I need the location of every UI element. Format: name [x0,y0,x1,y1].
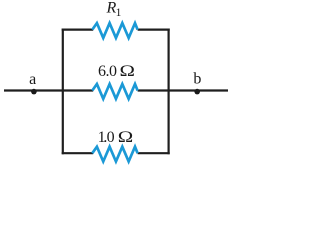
resistor 1.0 ohm (bottom branch) [92,147,137,162]
wire: bottom branch left stub [62,152,93,154]
svg-text:Ω: Ω [119,62,135,80]
svg-text:6.0: 6.0 [98,63,117,80]
svg-text:Ω: Ω [118,128,134,146]
wire: top branch left stub [62,29,93,31]
wire: right vertical of parallel loop [168,29,170,155]
svg-text:1: 1 [116,7,122,19]
wire: left vertical of parallel loop [62,29,64,155]
wire: bottom branch right stub [138,152,170,154]
svg-text:0: 0 [107,129,115,146]
node a (junction dot) [31,89,37,95]
wire: top branch right stub [138,29,170,31]
resistor 6.0 ohm (middle branch) [92,84,137,99]
wire: middle horizontal lead from resistor to b [138,89,228,91]
svg-text:a: a [29,71,36,88]
wire: middle horizontal lead from a to resistor [4,89,93,91]
svg-text:b: b [193,71,201,88]
resistor R1 (top branch) [92,23,137,38]
node b (junction dot) [194,89,200,95]
